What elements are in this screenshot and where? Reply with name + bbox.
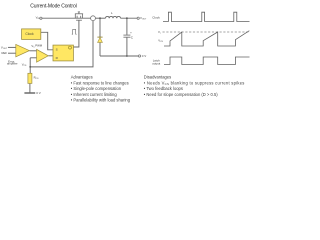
svg-text:S: S [56,47,58,51]
svg-text:Disadvantages: Disadvantages [144,74,171,79]
svg-text:Current-Mode Control: Current-Mode Control [30,4,76,10]
svg-text:L: L [111,11,113,15]
svg-text:output: output [152,62,160,66]
svg-text:Clock: Clock [25,32,34,36]
svg-text:Clock: Clock [152,16,160,20]
svg-text:PWM: PWM [35,43,43,47]
svg-text:• Inherent current limiting: • Inherent current limiting [71,92,118,97]
svg-text:Advantages: Advantages [71,74,93,79]
svg-text:• Parallelability with load sh: • Parallelability with load sharing [71,98,131,103]
svg-text:0 V: 0 V [142,54,147,58]
svg-text:• Single-pole compensation: • Single-pole compensation [71,86,122,91]
svg-text:REF: REF [2,51,8,55]
svg-text:amplifier: amplifier [7,62,18,66]
svg-text:• Two feedback loops: • Two feedback loops [144,86,183,91]
svg-text:• Need for slope compensation: • Need for slope compensation (D > 0.5) [144,92,218,97]
svg-text:0 V: 0 V [36,91,41,95]
svg-text:• Fast response to line change: • Fast response to line changes [71,80,129,85]
svg-text:+: + [130,30,132,34]
